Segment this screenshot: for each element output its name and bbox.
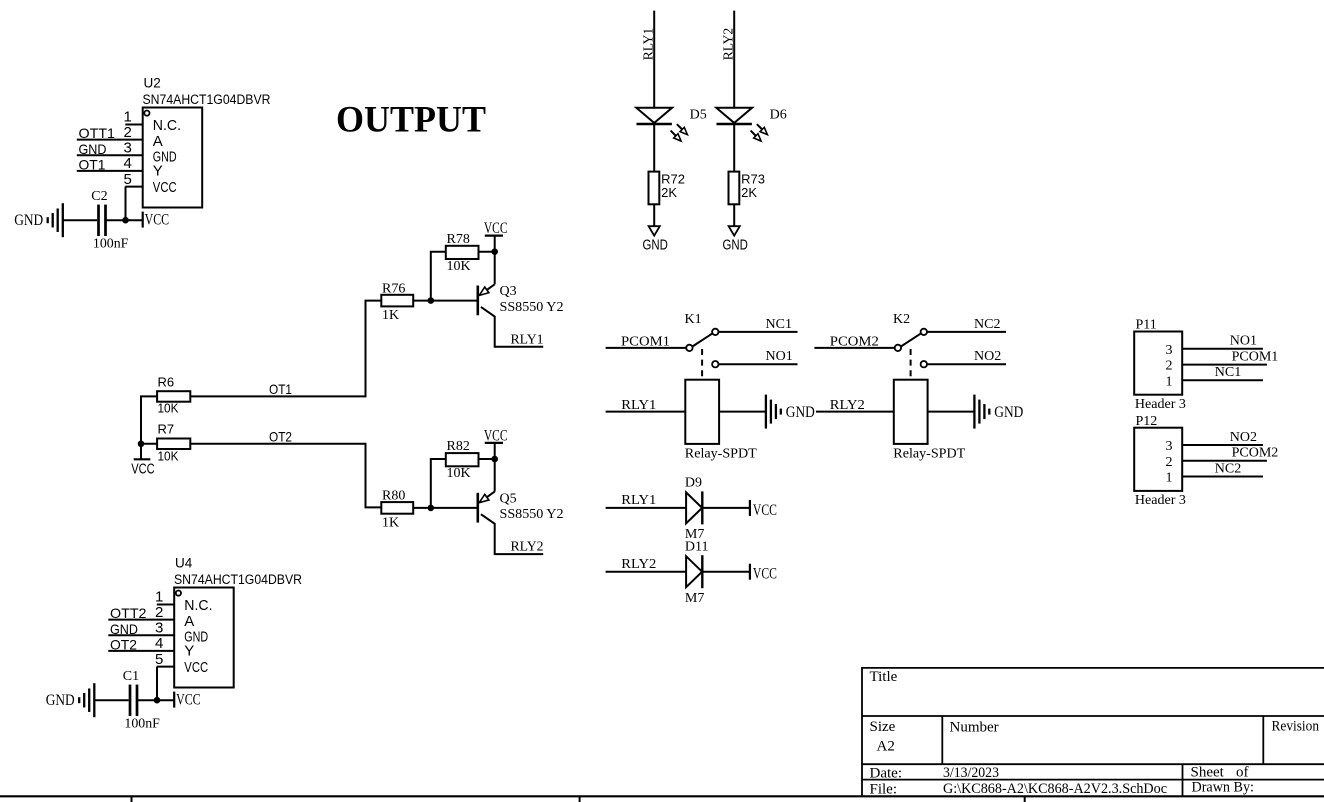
svg-text:D11: D11 [685, 539, 709, 554]
IC U4 pin 1 stub [157, 604, 174, 606]
title block vertical dividers [942, 717, 1263, 797]
IC U2 pin 1 stub [125, 124, 142, 126]
svg-text:5: 5 [123, 171, 131, 188]
transistor Q5 base bar [476, 493, 479, 523]
sheet border tick 2 [579, 796, 581, 802]
svg-text:2: 2 [155, 604, 163, 621]
svg-text:Y: Y [153, 163, 163, 180]
wire NC1 [719, 331, 798, 333]
diode D11 triangle [686, 556, 702, 587]
wire pin5 of U2 down to VCC rail [125, 187, 127, 221]
svg-text:NO1: NO1 [766, 349, 793, 364]
relay K1 common contact circle [686, 345, 692, 351]
svg-text:PCOM2: PCOM2 [1232, 446, 1279, 461]
LED D6 emission arrow 1 [757, 124, 762, 129]
GND port pin arrow [729, 226, 740, 235]
power port VCC bar [173, 692, 175, 708]
ground symbol [62, 203, 64, 237]
diode D9 triangle [686, 492, 702, 523]
svg-text:R73: R73 [741, 171, 765, 186]
relay K1 coil [685, 380, 719, 444]
svg-text:RLY2: RLY2 [721, 28, 736, 61]
LED D5 emission arrow 1 [677, 124, 682, 129]
IC U4 pin 5 stub [157, 666, 174, 668]
ground symbol [973, 395, 975, 429]
relay K2 coil [894, 380, 928, 444]
svg-text:R82: R82 [447, 439, 470, 454]
svg-text:R7: R7 [158, 422, 175, 437]
wire NO2 [927, 363, 1006, 365]
relay K1 switch blade [692, 333, 712, 346]
junction [154, 697, 161, 704]
resistor R7 body [157, 439, 190, 450]
svg-text:1: 1 [1166, 471, 1173, 486]
svg-text:M7: M7 [685, 591, 704, 606]
IC U2 pin 5 stub [125, 186, 142, 188]
wire LED to resistor R73 [733, 124, 735, 172]
svg-text:OUTPUT: OUTPUT [336, 100, 486, 141]
svg-text:RLY2: RLY2 [511, 540, 544, 555]
resistor R80 body [381, 502, 413, 514]
svg-text:VCC: VCC [753, 566, 777, 583]
svg-text:VCC: VCC [753, 502, 777, 519]
svg-text:U4: U4 [175, 555, 193, 570]
svg-text:P11: P11 [1136, 318, 1157, 333]
IC U2 body [143, 108, 203, 208]
power port VCC below junction [140, 444, 142, 460]
diode D9 cathode bar [701, 491, 703, 524]
resistor R82 body [446, 453, 479, 466]
wire net OT1 [190, 301, 381, 397]
relay K2 NC contact circle [921, 329, 927, 335]
connector P11 pin 1 wire [1182, 379, 1263, 381]
connector P11 pin 2 wire [1182, 364, 1267, 366]
connector P12 pin 2 wire [1182, 460, 1267, 462]
wire PCOM1 [606, 347, 687, 349]
svg-text:G:\KC868-A2\KC868-A2V2.3.SchDo: G:\KC868-A2\KC868-A2V2.3.SchDoc [943, 781, 1167, 797]
svg-text:GND: GND [786, 404, 815, 421]
svg-text:GND: GND [46, 692, 75, 709]
LED D6 emission arrow 2 [751, 131, 756, 136]
relay K1 NC contact circle [712, 329, 718, 335]
resistor R73 body [729, 172, 740, 205]
svg-text:Drawn By:: Drawn By: [1192, 780, 1255, 796]
svg-text:SN74AHCT1G04DBVR: SN74AHCT1G04DBVR [174, 572, 302, 587]
GND port pin arrow [649, 226, 660, 235]
transistor Q3 base bar [476, 286, 479, 316]
junction at R7 [138, 441, 145, 448]
svg-text:10K: 10K [158, 400, 179, 415]
svg-text:3: 3 [155, 619, 163, 636]
svg-text:Revision: Revision [1272, 719, 1320, 735]
wire NC2 [927, 331, 1006, 333]
svg-text:GND: GND [79, 141, 107, 157]
svg-text:2: 2 [123, 124, 131, 141]
wire junction up to R78 [431, 252, 446, 301]
svg-text:4: 4 [123, 155, 131, 172]
power port VCC [749, 500, 751, 516]
wire resistor to ground pin [653, 204, 655, 226]
svg-text:OTT2: OTT2 [110, 605, 147, 621]
sheet border tick 1 [131, 796, 133, 802]
svg-text:2K: 2K [661, 185, 677, 200]
junction [122, 217, 129, 224]
IC U4 pin 4 wire [108, 650, 174, 652]
relay K2 NO contact circle [921, 361, 927, 367]
svg-text:R72: R72 [661, 171, 685, 186]
junction at VCC rail [491, 248, 498, 255]
svg-text:10K: 10K [447, 259, 471, 274]
wire R82 to VCC rail [479, 458, 495, 460]
svg-text:N.C.: N.C. [184, 597, 212, 614]
junction at VCC rail [491, 456, 498, 463]
svg-text:Number: Number [950, 720, 999, 736]
svg-text:A2: A2 [877, 739, 895, 755]
wire RLY1 to coil [606, 411, 686, 413]
svg-text:GND: GND [110, 621, 138, 637]
svg-text:4: 4 [155, 635, 163, 652]
svg-text:D5: D5 [690, 107, 707, 122]
svg-text:RLY1: RLY1 [621, 398, 656, 413]
svg-text:GND: GND [643, 236, 669, 253]
IC U4 pin-1 indicator [176, 591, 181, 596]
svg-text:2: 2 [1166, 455, 1173, 470]
svg-text:2: 2 [1166, 359, 1173, 374]
connector P11 pin 3 wire [1182, 348, 1263, 350]
connector P12 body [1134, 428, 1182, 491]
svg-text:NC1: NC1 [766, 317, 792, 332]
relay K2 common contact circle [895, 345, 901, 351]
connector P11 body [1134, 332, 1182, 395]
svg-text:SS8550 Y2: SS8550 Y2 [500, 300, 564, 315]
svg-text:Sheet: Sheet [1191, 765, 1225, 781]
wire R78 to VCC rail [479, 251, 495, 253]
svg-text:OTT1: OTT1 [79, 125, 116, 141]
power port VCC bar [142, 212, 144, 228]
wire R80 to base [413, 507, 478, 509]
svg-text:D9: D9 [685, 476, 702, 491]
svg-text:NO2: NO2 [1230, 430, 1257, 445]
svg-text:R76: R76 [382, 281, 405, 296]
svg-text:OT2: OT2 [110, 637, 137, 653]
wire R6 left to VCC riser [141, 396, 157, 443]
LED D5 emission arrow 2 [671, 131, 676, 136]
wire diode to VCC [702, 571, 750, 573]
diode D11 cathode bar [701, 555, 703, 588]
svg-text:3: 3 [1166, 343, 1173, 358]
svg-text:U2: U2 [144, 75, 161, 90]
svg-text:OT2: OT2 [269, 428, 292, 444]
svg-text:3/13/2023: 3/13/2023 [943, 765, 999, 781]
svg-text:Y: Y [184, 643, 194, 660]
wire net RLY1 vertical [653, 11, 655, 108]
wire coil to ground [928, 411, 975, 413]
svg-text:VCC: VCC [176, 692, 201, 709]
transistor Q5 emitter with arrow [487, 492, 495, 498]
svg-text:of: of [1236, 765, 1249, 781]
svg-text:RLY1: RLY1 [511, 332, 544, 347]
svg-text:100nF: 100nF [124, 717, 160, 732]
power port VCC [494, 236, 496, 252]
svg-text:VCC: VCC [131, 460, 155, 477]
svg-text:OT1: OT1 [79, 157, 106, 173]
ground symbol [93, 683, 95, 717]
svg-text:C1: C1 [123, 669, 139, 684]
connector P12 pin 3 wire [1182, 444, 1263, 446]
svg-text:P12: P12 [1136, 414, 1158, 429]
svg-text:N.C.: N.C. [153, 117, 181, 134]
IC U4 pin 2 wire [108, 619, 174, 621]
IC U2 pin 3 wire [77, 154, 143, 156]
svg-text:VCC: VCC [184, 659, 208, 676]
capacitor C1 plates [129, 685, 132, 716]
sheet border tick 3 [1024, 796, 1026, 802]
svg-text:3: 3 [1166, 439, 1173, 454]
resistor R6 body [157, 391, 190, 402]
wire net RLY2 vertical [733, 11, 735, 108]
svg-text:NC1: NC1 [1215, 365, 1241, 380]
svg-text:A: A [153, 133, 163, 150]
svg-text:VCC: VCC [484, 427, 508, 444]
svg-text:R6: R6 [158, 374, 175, 389]
svg-text:NC2: NC2 [1215, 461, 1241, 476]
svg-text:R80: R80 [382, 489, 405, 504]
svg-text:Q5: Q5 [500, 491, 517, 506]
LED D6 cathode bar [717, 123, 752, 126]
IC U2 pin 4 wire [77, 170, 143, 172]
wire junction up to R82 [431, 459, 446, 508]
svg-text:NO2: NO2 [974, 349, 1001, 364]
wire LED to resistor R72 [653, 124, 655, 172]
IC U4 pin 3 wire [108, 634, 174, 636]
svg-text:Relay-SPDT: Relay-SPDT [893, 446, 965, 461]
svg-text:File:: File: [870, 782, 898, 798]
svg-text:Header 3: Header 3 [1135, 493, 1186, 508]
svg-text:NO1: NO1 [1230, 334, 1257, 349]
svg-text:RLY1: RLY1 [641, 28, 656, 61]
svg-text:Relay-SPDT: Relay-SPDT [685, 446, 757, 461]
svg-text:2K: 2K [741, 185, 757, 200]
wire diode to VCC [702, 507, 750, 509]
wire ground to capacitor [63, 219, 97, 221]
wire resistor to ground pin [733, 204, 735, 226]
svg-text:GND: GND [994, 404, 1023, 421]
svg-text:100nF: 100nF [93, 237, 129, 252]
transistor Q3 emitter riser to VCC [494, 252, 496, 285]
wire ground to capacitor [94, 699, 128, 701]
svg-text:A: A [184, 613, 194, 630]
wire pin5 of U4 down to VCC rail [156, 667, 158, 701]
wire RLY2 to coil [816, 411, 894, 413]
transistor Q5 emitter riser to VCC [494, 459, 496, 492]
svg-text:VCC: VCC [484, 220, 508, 237]
LED D6 triangle [716, 108, 752, 123]
svg-text:Size: Size [870, 719, 896, 735]
capacitor C2 plates [97, 205, 100, 236]
power port VCC [494, 443, 496, 459]
resistor R76 body [381, 295, 413, 307]
svg-text:1: 1 [1166, 374, 1173, 389]
IC U4 body [174, 588, 234, 688]
connector P12 pin 1 wire [1182, 476, 1263, 478]
wire PCOM2 [814, 347, 894, 349]
svg-text:C2: C2 [91, 189, 107, 204]
sheet border bottom line [0, 795, 1324, 797]
wire net RLY2 [606, 571, 687, 573]
svg-text:OT1: OT1 [269, 381, 292, 397]
wire NO1 [719, 363, 798, 365]
wire net RLY1 [606, 507, 687, 509]
svg-text:3: 3 [123, 139, 131, 156]
power port VCC [749, 564, 751, 580]
svg-text:VCC: VCC [145, 212, 170, 229]
wire R76 to base [413, 300, 478, 302]
svg-text:PCOM2: PCOM2 [830, 335, 879, 350]
relay K1 NO contact circle [712, 361, 718, 367]
svg-text:Q3: Q3 [500, 284, 517, 299]
transistor Q3 emitter with arrow [487, 284, 495, 290]
relay K1 actuator dashed link [701, 349, 703, 380]
svg-text:PCOM1: PCOM1 [621, 335, 670, 350]
transistor Q5 collector [481, 514, 543, 554]
LED D5 triangle [636, 108, 672, 123]
svg-text:SN74AHCT1G04DBVR: SN74AHCT1G04DBVR [143, 92, 271, 107]
svg-text:Header 3: Header 3 [1135, 397, 1186, 412]
resistor R72 body [649, 172, 660, 205]
wire net OT2 [190, 444, 381, 508]
svg-text:Title: Title [870, 669, 898, 685]
IC U2 pin 2 wire [77, 139, 143, 141]
junction at base network [428, 297, 435, 304]
transistor Q3 collector [481, 307, 543, 347]
svg-text:PCOM1: PCOM1 [1232, 349, 1279, 364]
svg-text:GND: GND [14, 212, 43, 229]
IC U2 pin-1 indicator [144, 111, 149, 116]
relay K2 actuator dashed link [910, 349, 912, 380]
wire capacitor to VCC port [137, 699, 174, 701]
svg-text:R78: R78 [447, 232, 470, 247]
wire coil to ground [719, 411, 766, 413]
LED D5 cathode bar [637, 123, 672, 126]
svg-text:1K: 1K [382, 515, 399, 530]
wire junction to R7 [141, 443, 157, 445]
svg-text:Date:: Date: [870, 766, 902, 782]
svg-text:D6: D6 [770, 107, 787, 122]
junction at base network [428, 505, 435, 512]
svg-text:5: 5 [155, 651, 163, 668]
title block outer and row lines [862, 668, 1324, 796]
svg-text:NC2: NC2 [974, 317, 1000, 332]
svg-text:RLY1: RLY1 [621, 493, 656, 508]
svg-text:SS8550 Y2: SS8550 Y2 [500, 507, 564, 522]
svg-text:10K: 10K [447, 466, 471, 481]
svg-text:K1: K1 [685, 312, 702, 327]
svg-text:VCC: VCC [153, 179, 177, 196]
svg-text:RLY2: RLY2 [830, 398, 865, 413]
svg-text:1K: 1K [382, 308, 399, 323]
relay K2 switch blade [901, 333, 921, 346]
svg-text:K2: K2 [893, 312, 910, 327]
resistor R78 body [446, 246, 479, 259]
wire capacitor to VCC port [106, 219, 143, 221]
svg-text:GND: GND [723, 236, 749, 253]
svg-text:RLY2: RLY2 [621, 557, 656, 572]
svg-text:10K: 10K [158, 448, 179, 463]
ground symbol [765, 395, 767, 429]
